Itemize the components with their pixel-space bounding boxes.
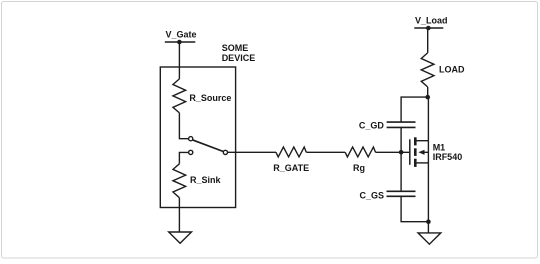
node drain junction xyxy=(425,95,430,100)
wire switch output to R_GATE xyxy=(228,151,277,153)
ground (left) xyxy=(169,232,192,243)
resistor LOAD xyxy=(421,53,465,87)
wire switch throw to R_Sink xyxy=(179,152,188,163)
wire Rg to gate xyxy=(376,151,411,153)
node source junction xyxy=(426,219,431,224)
resistor R_Sink xyxy=(173,164,222,198)
device box SOME DEVICE xyxy=(160,43,255,207)
wire V_Load to LOAD xyxy=(427,28,429,53)
svg-text:C_GS: C_GS xyxy=(360,190,385,200)
resistor R_Source xyxy=(173,79,231,113)
wire drain node to C_GD xyxy=(401,97,428,122)
svg-text:R_Source: R_Source xyxy=(189,93,231,103)
wire R_Source to switch pole xyxy=(179,113,188,139)
node V_Load xyxy=(414,16,447,31)
capacitor C_GS xyxy=(360,190,416,200)
svg-text:R_GATE: R_GATE xyxy=(273,163,309,173)
node gate junction xyxy=(399,150,404,155)
wire C_GD to gate node xyxy=(400,127,402,152)
svg-text:IRF540: IRF540 xyxy=(433,152,463,162)
svg-text:DEVICE: DEVICE xyxy=(222,53,256,63)
transistor M1 xyxy=(410,137,462,167)
ground (right) xyxy=(418,233,441,244)
wire R_GATE to Rg xyxy=(306,151,345,153)
svg-text:SOME: SOME xyxy=(222,43,249,53)
svg-text:R_Sink: R_Sink xyxy=(190,175,222,185)
wire source rail xyxy=(427,141,429,233)
svg-text:LOAD: LOAD xyxy=(439,65,465,75)
wire drain rail xyxy=(427,97,429,141)
wire LOAD to drain node xyxy=(427,87,429,97)
resistor Rg xyxy=(345,147,375,173)
wire R_Sink to ground xyxy=(178,198,180,232)
node V_Gate xyxy=(165,29,197,44)
svg-text:Rg: Rg xyxy=(353,163,365,173)
svg-text:V_Gate: V_Gate xyxy=(166,29,197,39)
svg-text:V_Load: V_Load xyxy=(415,16,448,26)
resistor R_GATE xyxy=(273,147,309,173)
wire C_GS to source node xyxy=(401,196,428,221)
svg-text:C_GD: C_GD xyxy=(359,120,385,130)
wire V_Gate to R_Source xyxy=(178,42,180,79)
switch SW1 xyxy=(189,137,228,155)
wire gate node to C_GS xyxy=(400,152,402,191)
capacitor C_GD xyxy=(359,120,416,130)
